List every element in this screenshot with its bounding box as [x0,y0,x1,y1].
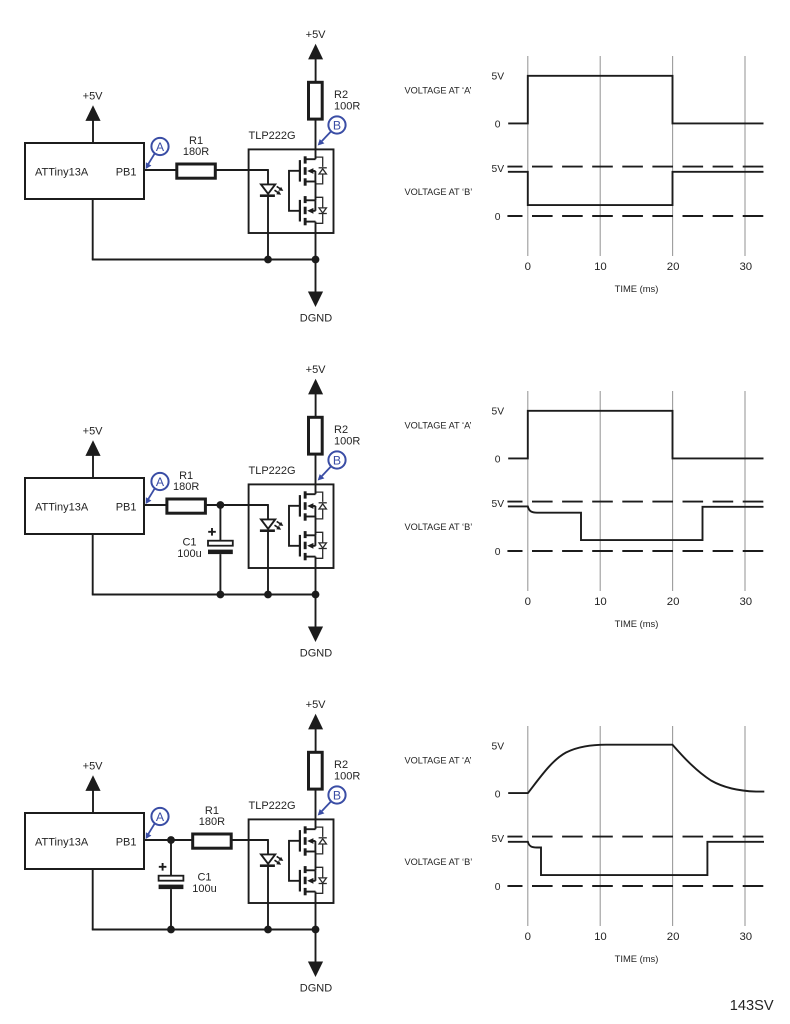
svg-text:180R: 180R [183,146,209,158]
svg-text:TIME (ms): TIME (ms) [615,283,659,294]
svg-text:100R: 100R [334,101,360,113]
resistor R2 100R [309,752,361,789]
IC ATTiny13A microcontroller [25,813,144,869]
wire node B vertical chain through MOSFETs [315,455,317,595]
svg-text:5V: 5V [491,834,504,845]
x-axis tick labels 0 10 20 30 [525,261,753,273]
svg-text:C1: C1 [182,537,196,549]
MOSFET (lower) of TLP222G output [300,866,316,895]
body diode of lower MOSFET [316,867,327,893]
svg-text:5V: 5V [491,499,504,510]
dashed 0V reference line for B [507,215,766,217]
x-axis tick labels 0 10 20 30 [525,596,753,608]
svg-text:PB1: PB1 [116,166,137,178]
svg-text:20: 20 [667,261,680,273]
waveform VOLTAGE AT B [508,506,764,540]
svg-text:R2: R2 [334,424,348,436]
wire node B vertical chain through MOSFETs [315,790,317,930]
dashed 5V reference line for B [507,836,766,838]
svg-text:30: 30 [739,596,752,608]
node B (drain net label) [318,451,346,480]
resistor R1 180R [167,470,206,513]
MOSFET (upper) of TLP222G output [300,826,316,855]
MOSFET (lower) of TLP222G output [300,196,316,225]
y-axis labels for A [491,742,504,801]
MOSFET (lower) of TLP222G output [300,531,316,560]
y-axis labels for B [491,164,504,223]
y-axis labels for B [491,834,504,893]
waveform VOLTAGE AT A [508,411,763,459]
wire PB1 to R1 [144,169,176,171]
x-axis tick labels 0 10 20 30 [525,931,753,943]
node A (PB1 output net label) [146,808,169,839]
svg-text:+5V: +5V [83,91,104,103]
svg-text:VOLTAGE AT ‘B’: VOLTAGE AT ‘B’ [405,857,473,867]
svg-text:5V: 5V [491,407,504,418]
svg-text:DGND: DGND [300,983,332,995]
optocoupler TLP222G package outline [249,465,334,568]
junction dot at PB1 / C1 top [167,836,175,844]
+5V power symbol (left, supply to ATTiny13A) [83,426,104,478]
junction dot MOSFET source to rail [312,926,320,934]
svg-text:143SV: 143SV [730,998,774,1014]
waveform VOLTAGE AT A [508,745,764,793]
node A (PB1 output net label) [146,138,169,169]
svg-text:10: 10 [594,261,607,273]
y-axis labels for B [491,499,504,558]
LED light emission arrows [275,521,284,529]
junction dot MOSFET source to rail [312,256,320,264]
optocoupler TLP222G package outline [249,800,334,903]
svg-text:180R: 180R [173,481,199,493]
svg-text:VOLTAGE AT ‘A’: VOLTAGE AT ‘A’ [405,85,472,95]
LED emitter inside TLP222G [260,169,275,259]
junction dot MOSFET source to rail [312,591,320,599]
svg-text:VOLTAGE AT ‘A’: VOLTAGE AT ‘A’ [405,755,472,765]
body diode of upper MOSFET [316,827,327,854]
gate tie wire between both MOSFET gates [289,171,300,211]
svg-text:0: 0 [525,596,531,608]
svg-text:100R: 100R [334,436,360,448]
gate tie wire between both MOSFET gates [289,841,300,881]
junction dot C1 to rail [217,591,225,599]
IC ATTiny13A microcontroller [25,143,144,199]
LED emitter inside TLP222G [260,504,275,594]
svg-text:B: B [333,454,341,468]
svg-text:+5V: +5V [306,364,327,376]
svg-text:ATTiny13A: ATTiny13A [35,501,89,513]
wire R1 to optocoupler LED anode [206,504,268,506]
svg-text:A: A [156,140,165,154]
svg-text:TLP222G: TLP222G [249,465,296,477]
dashed 0V reference line for B [507,885,766,887]
svg-text:100u: 100u [177,548,201,560]
svg-text:0: 0 [495,547,501,558]
dashed 5V reference line for B [507,501,766,503]
body diode of lower MOSFET [316,197,327,223]
svg-text:A: A [156,810,165,824]
svg-text:R1: R1 [189,135,203,147]
capacitor C1 100u (electrolytic, before R1) [159,840,217,930]
body diode of lower MOSFET [316,532,327,558]
svg-text:20: 20 [667,931,680,943]
svg-text:VOLTAGE AT ‘B’: VOLTAGE AT ‘B’ [405,522,473,532]
DGND ground symbol [300,930,332,995]
svg-text:0: 0 [495,120,501,131]
+5V power symbol (left, supply to ATTiny13A) [83,761,104,813]
resistor R1 180R [193,805,232,848]
waveform VOLTAGE AT B [508,172,764,205]
chart grid lines (time axis) [528,726,745,926]
wire ground rail [92,533,316,595]
svg-text:B: B [333,119,341,133]
wire ground rail [92,198,316,260]
svg-text:0: 0 [495,790,501,801]
svg-text:100u: 100u [192,883,216,895]
svg-text:100R: 100R [334,771,360,783]
resistor R1 180R [177,135,216,178]
gate tie wire between both MOSFET gates [289,506,300,546]
svg-text:0: 0 [495,882,501,893]
wire PB1 to R1 [144,839,192,841]
wire R1 to optocoupler LED anode [232,839,268,841]
MOSFET (upper) of TLP222G output [300,156,316,185]
y-axis labels for A [491,407,504,466]
junction dot at R1 output / C1 top [217,501,225,509]
wire PB1 to R1 [144,504,166,506]
wire R1 to optocoupler LED anode [216,169,268,171]
junction dot C1 to rail [167,926,175,934]
junction dot LED cathode to rail [264,591,272,599]
DGND ground symbol [300,260,332,325]
dashed 5V reference line for B [507,166,766,168]
node B (drain net label) [318,786,346,815]
svg-text:ATTiny13A: ATTiny13A [35,166,89,178]
svg-text:TLP222G: TLP222G [249,130,296,142]
svg-text:180R: 180R [199,816,225,828]
svg-text:PB1: PB1 [116,836,137,848]
svg-text:+5V: +5V [306,29,327,41]
junction dot LED cathode to rail [264,926,272,934]
svg-text:TIME (ms): TIME (ms) [615,953,659,964]
svg-text:TLP222G: TLP222G [249,800,296,812]
svg-text:TIME (ms): TIME (ms) [615,618,659,629]
svg-text:R2: R2 [334,89,348,101]
svg-text:VOLTAGE AT ‘A’: VOLTAGE AT ‘A’ [405,420,472,430]
svg-text:0: 0 [495,455,501,466]
svg-text:DGND: DGND [300,313,332,325]
svg-text:B: B [333,789,341,803]
chart grid lines (time axis) [528,391,745,591]
LED light emission arrows [275,856,284,864]
+5V power symbol (left, supply to ATTiny13A) [83,91,104,143]
svg-text:0: 0 [525,931,531,943]
svg-text:30: 30 [739,931,752,943]
resistor R2 100R [309,82,361,119]
svg-text:R1: R1 [205,805,219,817]
svg-text:30: 30 [739,261,752,273]
svg-text:DGND: DGND [300,648,332,660]
wire node B vertical chain through MOSFETs [315,120,317,260]
waveform VOLTAGE AT B [508,842,764,875]
svg-text:ATTiny13A: ATTiny13A [35,836,89,848]
+5V power symbol (top, pull-up supply) [306,699,327,751]
LED light emission arrows [275,186,284,194]
svg-text:5V: 5V [491,72,504,83]
svg-text:A: A [156,475,165,489]
svg-text:R1: R1 [179,470,193,482]
svg-text:+5V: +5V [83,426,104,438]
DGND ground symbol [300,595,332,660]
svg-text:5V: 5V [491,164,504,175]
svg-text:+5V: +5V [83,761,104,773]
body diode of upper MOSFET [316,492,327,519]
svg-text:PB1: PB1 [116,501,137,513]
LED emitter inside TLP222G [260,839,275,929]
svg-text:5V: 5V [491,742,504,753]
svg-text:10: 10 [594,931,607,943]
svg-text:R2: R2 [334,759,348,771]
junction dot LED cathode to rail [264,256,272,264]
+5V power symbol (top, pull-up supply) [306,364,327,416]
node B (drain net label) [318,116,346,145]
svg-text:VOLTAGE AT ‘B’: VOLTAGE AT ‘B’ [405,187,473,197]
node A (PB1 output net label) [146,473,169,504]
dashed 0V reference line for B [507,550,766,552]
svg-text:0: 0 [525,261,531,273]
capacitor C1 100u (electrolytic, after R1) [177,505,233,595]
svg-text:20: 20 [667,596,680,608]
+5V power symbol (top, pull-up supply) [306,29,327,81]
svg-text:10: 10 [594,596,607,608]
svg-text:0: 0 [495,212,501,223]
resistor R2 100R [309,417,361,454]
body diode of upper MOSFET [316,157,327,184]
chart grid lines (time axis) [528,56,745,256]
wire ground rail [92,868,316,930]
waveform VOLTAGE AT A [508,76,763,124]
svg-text:+5V: +5V [306,699,327,711]
IC ATTiny13A microcontroller [25,478,144,534]
MOSFET (upper) of TLP222G output [300,491,316,520]
optocoupler TLP222G package outline [249,130,334,233]
svg-text:C1: C1 [197,872,211,884]
y-axis labels for A [491,72,504,131]
